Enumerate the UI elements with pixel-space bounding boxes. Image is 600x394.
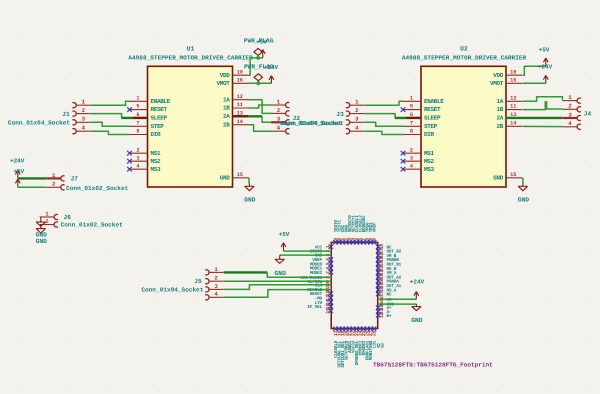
svg-text:+5V: +5V (539, 47, 550, 54)
U3 top pin CLKSEL1 (354, 215, 360, 245)
U3 left pin 5 MODE0 (310, 262, 333, 268)
connector J5 Conn_01x04_Socket (141, 266, 223, 300)
svg-text:14: 14 (510, 120, 517, 126)
U3 left pin 15 IF_SEL (307, 304, 333, 311)
U3 right pin OUT_B2 (376, 248, 402, 255)
power +5V (13, 168, 24, 188)
svg-text:GND: GND (518, 197, 530, 204)
U2 pin 13 2A (496, 112, 522, 122)
svg-text:Conn_01x04_Socket: Conn_01x04_Socket (141, 287, 204, 294)
svg-text:J3: J3 (336, 111, 344, 118)
svg-text:U2: U2 (460, 46, 468, 53)
IC U2 A4988_STEPPER_MOTOR_DRIVER_CARRIER body (402, 46, 527, 188)
wire (249, 105, 272, 108)
U2 pin 2 MS1 (401, 147, 435, 157)
U3 right pin VM_B (376, 252, 397, 259)
U3 right pin B+ (376, 312, 392, 319)
svg-text:14: 14 (237, 119, 244, 125)
U3 top pin GND (343, 224, 349, 244)
svg-text:1: 1 (82, 99, 86, 106)
ground (411, 304, 423, 324)
svg-text:12: 12 (237, 94, 243, 100)
U3 right pin OUT_B1 (376, 261, 402, 268)
wire (249, 58, 263, 75)
svg-text:3: 3 (82, 116, 86, 123)
svg-text:2: 2 (45, 218, 49, 225)
U1 pin 4 MS3 (127, 163, 161, 173)
svg-text:11: 11 (237, 102, 243, 108)
U3 right pin PGNDA (376, 278, 399, 285)
svg-text:ENABLE: ENABLE (151, 98, 171, 105)
wire (262, 116, 271, 122)
U1 pin 15 GND (220, 172, 249, 182)
svg-text:1: 1 (277, 98, 281, 105)
svg-text:Conn_01x02_Socket: Conn_01x02_Socket (61, 222, 124, 229)
U3 bottom pin SETCUR0_SEL (336, 327, 342, 368)
svg-text:4: 4 (568, 120, 572, 127)
U3 top pin SETDCY0 (347, 215, 353, 245)
U3 bottom pin MONITOR0 (368, 327, 374, 361)
U3 left pin 13 -MD (315, 295, 333, 302)
svg-text:16: 16 (510, 77, 516, 83)
wire (224, 290, 332, 298)
svg-text:VMOT: VMOT (216, 80, 230, 87)
U3 bottom pin ERRFLAG1 (364, 327, 370, 361)
svg-text:3: 3 (214, 283, 218, 290)
IC U3 TB67S128FTG body (331, 242, 384, 349)
U3 left pin 10 CLK (315, 282, 332, 289)
power flag PWR_FLAG (244, 37, 274, 58)
svg-text:SLEEP: SLEEP (151, 115, 168, 122)
wire (249, 100, 272, 114)
svg-text:+5V: +5V (13, 168, 24, 175)
U2 pin 8 DIR (403, 129, 435, 139)
U3 right pin A- (376, 308, 391, 315)
svg-text:STEP: STEP (151, 123, 165, 130)
ground (518, 183, 530, 203)
U2 pin 1 ENABLE (403, 95, 444, 105)
U2 pin 14 2B (496, 120, 522, 129)
U3 right pin RS_A (376, 287, 397, 294)
wire (249, 125, 272, 132)
svg-text:U1: U1 (187, 46, 195, 53)
svg-text:2: 2 (410, 147, 413, 153)
svg-text:15: 15 (237, 172, 243, 178)
svg-text:J4: J4 (584, 111, 592, 118)
svg-text:2: 2 (355, 107, 359, 114)
U3 top pin TEST0 (333, 220, 339, 245)
U3 left pin 11 -ENABLE (305, 287, 331, 294)
svg-text:Conn_01x04_Socket: Conn_01x04_Socket (8, 120, 71, 127)
U3 left pin 9 CW/CCW (307, 279, 331, 285)
U1 pin 5 RESET (127, 104, 167, 114)
U2 pin 11 1B (496, 104, 522, 114)
U3 left pin 7 MODE2 (310, 270, 333, 276)
wire (523, 82, 546, 84)
U3 left pin 3 GND (315, 254, 332, 259)
U2 pin 10 VDD (493, 69, 522, 79)
U1 pin 13 2A (223, 110, 249, 120)
svg-text:GND: GND (493, 174, 504, 181)
junction (256, 56, 260, 60)
svg-text:8: 8 (136, 129, 139, 135)
U3 right pin RS_B (376, 265, 397, 272)
svg-text:VREF: VREF (373, 222, 378, 232)
wire (91, 131, 130, 134)
wire (284, 250, 332, 252)
svg-text:3: 3 (136, 155, 139, 161)
svg-text:GND: GND (244, 197, 256, 204)
U3 top pin TRQ0 (364, 222, 370, 245)
U3 top pin EDGESEL (361, 215, 367, 245)
svg-text:2B: 2B (223, 121, 230, 128)
wire (overlapped, thick) (122, 117, 148, 119)
U1 pin 6 SLEEP (130, 112, 168, 122)
U1 pin 7 STEP (130, 120, 165, 129)
U1 pin 3 MS2 (127, 155, 161, 165)
svg-text:U3: U3 (377, 343, 385, 350)
wire (overlapped, thick) (233, 115, 263, 117)
U3 left pin 12 RESET (310, 291, 333, 298)
U3 left pin 16 (325, 308, 333, 314)
svg-text:MS1: MS1 (151, 150, 162, 157)
svg-text:SLEEP: SLEEP (424, 115, 441, 122)
svg-text:1: 1 (52, 172, 56, 179)
svg-text:2A: 2A (496, 115, 503, 122)
svg-text:1: 1 (214, 266, 218, 273)
svg-text:GND: GND (220, 174, 231, 181)
svg-text:STEP: STEP (424, 123, 438, 130)
U3 right pin NC (376, 291, 392, 298)
U2 pin 6 SLEEP (403, 112, 441, 122)
svg-text:MS1: MS1 (424, 150, 435, 157)
U3 right pin OUT_A1 (376, 282, 402, 289)
U3 right pin GND (379, 301, 394, 308)
svg-text:+5V: +5V (256, 38, 267, 45)
power +5V (539, 47, 550, 67)
wire (378, 298, 417, 300)
U2 pin 3 MS2 (401, 155, 435, 165)
svg-text:12: 12 (510, 95, 516, 101)
wire (overlapped, thick) (224, 271, 268, 273)
svg-text:MS3: MS3 (424, 166, 435, 173)
U3 left pin 4 VREF (312, 257, 333, 263)
svg-text:Conn_01x02_Socket: Conn_01x02_Socket (66, 185, 129, 192)
svg-text:MS2: MS2 (424, 158, 435, 165)
svg-text:5: 5 (136, 104, 139, 110)
U3 right pin VM (379, 296, 392, 303)
U3 bottom pin CLKSEL0 (333, 327, 339, 358)
junction (256, 81, 260, 85)
svg-text:10: 10 (510, 69, 516, 75)
svg-text:VMOT: VMOT (490, 80, 504, 87)
power +24V (538, 64, 553, 84)
svg-text:ENABLE: ENABLE (424, 98, 444, 105)
U3 top pin VREF (372, 222, 378, 245)
ground (275, 255, 287, 277)
U3 bottom pin DMODE0_SEL (354, 327, 360, 366)
connector J3 Conn_01x04_Socket (281, 99, 364, 134)
U3 top pin SETDCY1 (350, 215, 356, 245)
wire (364, 131, 403, 134)
U1 pin 10 VDD (220, 69, 249, 79)
svg-text:J1: J1 (62, 111, 70, 118)
svg-text:RESET: RESET (151, 106, 168, 113)
svg-text:2: 2 (568, 103, 572, 110)
wire (overlapped, thick) (18, 177, 46, 179)
svg-text:1B: 1B (496, 106, 503, 113)
svg-text:DIR: DIR (424, 131, 435, 138)
U1 pin 16 VMOT (216, 77, 249, 87)
power +5V (256, 38, 267, 58)
wire (378, 303, 417, 305)
svg-text:3: 3 (410, 155, 413, 161)
U3 bottom pin DMODE2 (361, 327, 367, 356)
ground (244, 183, 256, 203)
svg-text:15: 15 (510, 172, 516, 178)
svg-text:1B: 1B (223, 105, 230, 112)
wire (267, 272, 331, 277)
U2 pin 5 RESET (401, 104, 441, 114)
wire (91, 122, 130, 126)
svg-text:2: 2 (82, 107, 86, 114)
wire (364, 101, 403, 105)
svg-text:+24V: +24V (410, 278, 425, 285)
U3 right pin A+ (376, 305, 392, 312)
wire (overlapped, thick) (506, 117, 563, 119)
connector J6 Conn_01x02_Socket (40, 210, 123, 228)
svg-text:A4988_STEPPER_MOTOR_DRIVER_CAR: A4988_STEPPER_MOTOR_DRIVER_CARRIER (402, 55, 527, 62)
svg-text:J7: J7 (71, 175, 79, 182)
U1 pin 14 2B (223, 119, 249, 129)
U2 pin 7 STEP (403, 120, 438, 129)
U3 top pin TRQ1 (368, 222, 374, 245)
U1 pin 2 MS1 (127, 147, 161, 157)
svg-text:IF_SEL: IF_SEL (307, 305, 322, 310)
wire (523, 66, 546, 75)
ground (36, 225, 48, 245)
svg-text:MS2: MS2 (151, 158, 162, 165)
U1 pin 8 DIR (130, 129, 162, 139)
U3 top pin CLKSEL2 (357, 215, 363, 245)
svg-text:TB67S128FTG:TB67S128FTG_Footpr: TB67S128FTG:TB67S128FTG_Footprint (373, 361, 493, 368)
svg-text:GND: GND (36, 238, 48, 245)
U3 left pin 8 VCC/CLKIN (300, 275, 331, 281)
svg-text:1: 1 (355, 99, 359, 106)
U3 left pin 1 VCC (315, 245, 333, 251)
U2 pin 12 1A (496, 95, 522, 105)
svg-text:3: 3 (355, 116, 359, 123)
svg-text:2A: 2A (223, 113, 230, 120)
power +24V (410, 278, 425, 299)
U1 pin 1 ENABLE (130, 95, 171, 105)
svg-text:DIR: DIR (151, 131, 162, 138)
power +5V (279, 231, 290, 251)
svg-text:LO1: LO1 (373, 340, 378, 348)
connector J4 Conn_01x04_Socket (563, 94, 592, 129)
U2 pin 16 VMOT (490, 77, 523, 87)
U1 pin 12 1A (223, 94, 249, 104)
svg-text:+24V: +24V (264, 64, 279, 71)
wire (523, 102, 563, 110)
svg-text:B+: B+ (387, 314, 392, 319)
svg-text:2: 2 (277, 107, 281, 114)
svg-text:GND: GND (275, 270, 287, 277)
U3 bottom pin DMODE1 (357, 327, 363, 356)
svg-text:1: 1 (45, 210, 49, 217)
U3 top pin TEST1 (336, 220, 342, 245)
svg-text:4: 4 (214, 291, 218, 298)
svg-text:11: 11 (510, 104, 516, 110)
wire (91, 114, 130, 118)
svg-text:VDD: VDD (220, 72, 231, 79)
wire (523, 97, 563, 102)
U3 bottom pin VCC33 (350, 327, 356, 353)
wire (224, 285, 332, 290)
svg-text:1A: 1A (223, 96, 230, 103)
svg-text:2: 2 (136, 147, 139, 153)
svg-text:GND: GND (411, 317, 423, 324)
connector J2 Conn_01x04_Socket (271, 98, 342, 133)
svg-text:+24V: +24V (10, 158, 25, 165)
U3 left pin 6 MODE1 (310, 266, 333, 272)
power +24V (10, 158, 25, 179)
wire (522, 178, 524, 184)
svg-text:J6: J6 (64, 214, 72, 221)
svg-text:2B: 2B (496, 123, 503, 130)
U3 right pin NC (376, 244, 392, 251)
U3 top pin OSC (340, 224, 346, 244)
svg-text:J5: J5 (194, 278, 202, 285)
svg-text:5: 5 (410, 104, 413, 110)
U1 pin 11 1B (223, 102, 249, 112)
svg-text:MS3: MS3 (151, 166, 162, 173)
IC U1 A4988_STEPPER_MOTOR_DRIVER_CARRIER body (128, 46, 253, 188)
connector J7 Conn_01x02_Socket (46, 172, 128, 192)
svg-text:7: 7 (410, 120, 413, 126)
svg-text:7: 7 (136, 120, 139, 126)
ground (36, 217, 48, 238)
U3 bottom pin LO1 (372, 327, 378, 349)
U3 bottom pin SETCUR2B (343, 327, 349, 361)
svg-text:Conn_01x04_Socket: Conn_01x04_Socket (281, 120, 344, 127)
U3 bottom pin SETCUR1_SEL (340, 327, 346, 368)
wire (224, 280, 332, 282)
svg-text:A4988_STEPPER_MOTOR_DRIVER_CAR: A4988_STEPPER_MOTOR_DRIVER_CARRIER (128, 55, 253, 62)
svg-text:2: 2 (52, 181, 56, 188)
U2 pin 4 MS3 (401, 163, 435, 173)
svg-text:+24V: +24V (538, 64, 553, 71)
U3 bottom pin AGND1 (347, 327, 353, 353)
wire (364, 122, 403, 126)
U3 right pin VM_A (376, 270, 397, 277)
U3 left pin 2 IOVCC (310, 250, 331, 255)
svg-text:3: 3 (568, 111, 572, 118)
wire (280, 254, 332, 256)
U3 left pin 14 LTH (315, 299, 333, 306)
wire (523, 125, 563, 127)
wire (18, 186, 46, 188)
U3 right pin PGNDB (376, 257, 399, 264)
svg-text:16: 16 (237, 77, 243, 83)
svg-text:8: 8 (410, 129, 413, 135)
wire (248, 178, 250, 184)
connector J1 Conn_01x04_Socket (8, 99, 91, 134)
wire (91, 101, 130, 105)
power +24V (264, 64, 279, 83)
svg-text:+5V: +5V (279, 231, 290, 238)
U3 right pin OUT_A2 (376, 274, 402, 281)
svg-text:10: 10 (237, 69, 243, 75)
U2 pin 15 GND (493, 172, 522, 182)
wire (249, 82, 271, 84)
svg-text:VDD: VDD (493, 72, 504, 79)
svg-text:1: 1 (136, 95, 139, 101)
svg-text:RESET: RESET (424, 106, 441, 113)
wire (364, 114, 403, 118)
svg-text:4: 4 (82, 125, 86, 132)
svg-text:2: 2 (214, 275, 218, 282)
wire (overlapped, thick) (395, 117, 421, 119)
svg-text:1A: 1A (496, 98, 503, 105)
svg-text:1: 1 (568, 94, 572, 101)
svg-text:1: 1 (410, 95, 413, 101)
svg-text:4: 4 (355, 125, 359, 132)
power flag PWR_FLAG (244, 64, 274, 84)
